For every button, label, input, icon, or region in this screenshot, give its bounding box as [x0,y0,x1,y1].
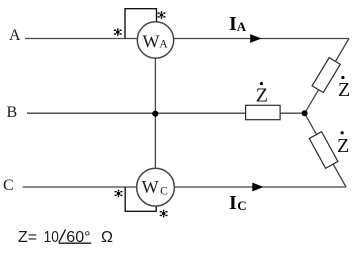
svg-text:C: C [160,185,168,197]
svg-text:Z=: Z= [18,229,37,246]
wattmeter U2 WC: voltage-coil loop [125,187,156,211]
current arrow IC on line C [252,183,263,192]
svg-text:C: C [3,177,14,194]
wattmeter U1 WA: voltage-coil loop [125,9,157,39]
svg-text:I: I [229,13,237,35]
wire: line C right segment [174,186,346,188]
svg-text:A: A [159,38,168,50]
polarity asterisk on line C before WC [115,190,123,198]
angle symbol underline [59,242,91,244]
wattmeter U1 WA: meter circle [137,22,173,58]
svg-text:Z: Z [338,79,350,101]
polarity asterisk on line A before WA [114,28,122,36]
wire: line B [27,112,305,114]
wire: diagonal from line A corner to star point [305,39,349,114]
wire: diagonal from star point to line C corner [305,113,346,187]
impedance Z (phase B, horizontal rectangle) [246,105,281,119]
polarity asterisk at WA voltage terminal [158,11,166,19]
svg-text:Ω: Ω [101,229,113,246]
svg-text:W: W [143,31,160,51]
wire: vertical from WA bottom through line B to WC top [154,58,156,168]
svg-text:Z: Z [337,135,349,157]
svg-text:C: C [237,198,246,213]
value label: Z = 10 angle 60 deg ohms [18,229,113,246]
wattmeter U2 WC: meter circle [137,168,175,206]
svg-text:B: B [7,104,18,121]
svg-text:Z: Z [256,85,268,107]
impedance Z (phase C, tilted rectangle) [309,132,338,169]
polarity asterisk at WC voltage terminal [160,210,168,218]
junction dot on line B [152,111,158,117]
node: star point [302,110,308,116]
svg-text:A: A [237,19,247,34]
wire: line A left segment [25,38,137,40]
svg-text:A: A [9,27,21,44]
wire: line C left segment [23,186,137,188]
wire: line A right segment [174,38,349,40]
svg-text:10: 10 [44,229,59,246]
svg-text:W: W [142,177,159,197]
angle symbol slash [59,229,66,242]
current arrow IA on line A [250,34,261,43]
svg-text:I: I [229,192,237,214]
impedance Z (phase A, tilted rectangle) [312,58,340,93]
